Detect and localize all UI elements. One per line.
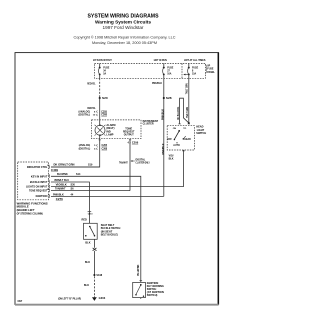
fuse panel divider	[181, 64, 183, 79]
module row 1 INDICATOR CTRL	[27, 165, 50, 169]
module row 6 IGNITION	[36, 194, 51, 198]
label buckle switch text	[101, 224, 121, 236]
page frame	[15, 53, 219, 305]
key switch contacts	[135, 284, 144, 299]
svg-text:8: 8	[94, 111, 96, 113]
svg-text:(DIGITAL): (DIGITAL)	[79, 147, 91, 150]
svg-text:OUTPUT: OUTPUT	[124, 134, 134, 137]
svg-text:5: 5	[94, 145, 96, 147]
svg-text:PANEL: PANEL	[207, 71, 215, 74]
splice S348	[93, 273, 102, 277]
svg-text:DK BLU/ORG: DK BLU/ORG	[177, 107, 180, 120]
svg-text:BLK: BLK	[85, 242, 90, 245]
svg-text:BLU/PNK: BLU/PNK	[137, 264, 140, 275]
module row 2 KEY IN INPUT	[31, 174, 50, 178]
wire row2 BLU/PNK	[51, 176, 141, 282]
svg-text:C310: C310	[88, 213, 93, 215]
svg-text:SWITCH): SWITCH)	[147, 294, 158, 297]
svg-text:S14: S14	[76, 173, 81, 176]
switch position labels	[167, 138, 191, 147]
indicator lamp	[95, 120, 106, 136]
wire below buckle switch	[94, 239, 96, 248]
svg-text:FUSE: FUSE	[167, 68, 174, 70]
svg-text:Warning System Circuits: Warning System Circuits	[95, 20, 152, 25]
junction at switch feed	[188, 122, 190, 124]
svg-text:OFF: OFF	[167, 139, 172, 141]
connector C205 pin 5 (analog) below cluster	[79, 144, 108, 147]
warning functions module dashed box	[18, 162, 49, 200]
buckle switch contacts	[85, 226, 95, 237]
svg-text:LIGHTS ON INPUT: LIGHTS ON INPUT	[26, 185, 48, 189]
svg-text:15A: 15A	[192, 73, 197, 76]
svg-text:HOT IN RUN OR START: HOT IN RUN OR START	[93, 59, 112, 62]
svg-text:HOT IN RUN: HOT IN RUN	[154, 59, 167, 62]
fuse F34	[99, 64, 110, 79]
wire lamp out to module row1	[51, 135, 100, 167]
label key warning switch text	[147, 282, 164, 297]
wire TN/LT GRN from F8	[188, 78, 190, 124]
pin tick cluster bottom tone	[129, 139, 131, 141]
wire RED/YEL dashed from F34	[99, 78, 101, 97]
label C409	[51, 169, 59, 172]
svg-text:BUCKLE INPUT: BUCKLE INPUT	[30, 180, 48, 184]
pin ticks into switch	[178, 123, 190, 125]
inline connector symbol	[93, 248, 97, 251]
svg-text:10A: 10A	[167, 73, 172, 76]
svg-text:AUTO: AUTO	[173, 144, 180, 147]
svg-text:HEAD: HEAD	[184, 138, 191, 141]
svg-text:S30: S30	[71, 184, 76, 187]
connector tick on buckle wire	[88, 212, 94, 216]
svg-text:DK GRN/LT GRN: DK GRN/LT GRN	[54, 164, 75, 167]
splice S20	[99, 96, 109, 100]
svg-text:PNK/BLK: PNK/BLK	[152, 82, 162, 85]
svg-text:PNK/BLK: PNK/BLK	[161, 109, 164, 120]
svg-text:I/P: I/P	[207, 65, 210, 67]
fuse panel dashed box	[94, 64, 205, 79]
svg-text:27: 27	[167, 71, 170, 73]
ground G303	[92, 296, 106, 301]
label HEADLIGHT SWITCH	[196, 126, 206, 136]
svg-text:4: 4	[127, 142, 129, 145]
svg-text:Copyright © 1998 Mitchell Repa: Copyright © 1998 Mitchell Repair Informa…	[74, 36, 177, 40]
wire row4 VIO/BLK	[51, 186, 184, 188]
wire row5 TAN/WHT	[51, 190, 130, 192]
svg-text:S28: S28	[166, 96, 172, 100]
label TONE REQUEST OUTPUT	[123, 127, 135, 136]
svg-text:BLU/PNK: BLU/PNK	[57, 173, 68, 176]
headlight switch dashed box	[167, 126, 194, 150]
label lamp text	[106, 124, 115, 136]
svg-text:CLUSTER ONLY: CLUSTER ONLY	[136, 162, 151, 165]
svg-text:4: 4	[94, 147, 96, 150]
svg-text:Monday, December 18, 2000 05:: Monday, December 18, 2000 05:43PM	[92, 41, 157, 45]
svg-text:6/97: 6/97	[18, 300, 23, 303]
arrow continuation at fuse F8	[183, 74, 189, 76]
svg-text:FUSE: FUSE	[192, 68, 199, 70]
svg-text:CLUSTER: CLUSTER	[143, 123, 154, 126]
splice S28	[163, 96, 173, 100]
svg-text:BLK: BLK	[85, 261, 90, 264]
svg-text:TAN/WHT: TAN/WHT	[119, 162, 128, 165]
svg-text:HOT AT ALL TIMES: HOT AT ALL TIMES	[184, 59, 206, 62]
wire TAN/WHT tone request	[129, 139, 131, 191]
switch terminal labels	[173, 128, 187, 130]
svg-text:OF STEERING COLUMN): OF STEERING COLUMN)	[17, 211, 43, 215]
wire dashed to ground	[93, 276, 95, 296]
wire row1 DK GRN/LT GRN	[51, 166, 100, 168]
svg-text:BLK: BLK	[169, 157, 174, 160]
label C276	[56, 198, 64, 201]
svg-text:FUSE: FUSE	[103, 68, 110, 70]
svg-text:VIO/BLK: VIO/BLK	[56, 184, 67, 187]
label FUSE PANEL	[205, 64, 215, 74]
svg-text:SWITCH: SWITCH	[196, 132, 206, 135]
label INSTRUMENT CLUSTER	[143, 120, 159, 126]
module row 4 LIGHTS ON INPUT	[26, 185, 50, 189]
svg-text:(ON LEFT "B" PILLAR): (ON LEFT "B" PILLAR)	[58, 297, 81, 300]
wire to splice	[94, 251, 96, 274]
module caption	[17, 201, 48, 215]
wire jumper DK BLU/ORG	[180, 98, 189, 124]
connector C268 pin 10 (digital)	[79, 114, 108, 117]
svg-text:LAMP: LAMP	[106, 133, 113, 136]
arrow digital cluster only	[131, 159, 151, 165]
svg-text:G303: G303	[99, 296, 106, 300]
svg-text:BRN/LT BLU: BRN/LT BLU	[55, 179, 70, 182]
switch contacts and levers	[174, 130, 186, 143]
pin tick key switch	[140, 280, 143, 282]
svg-text:RED: RED	[82, 219, 87, 222]
svg-text:TONE REQUEST: TONE REQUEST	[29, 189, 48, 193]
svg-text:S348: S348	[96, 273, 102, 277]
fuse F27	[163, 64, 174, 79]
svg-text:BLK: BLK	[84, 284, 89, 287]
module row 3 BUCKLE INPUT	[30, 180, 50, 184]
connector C205 pin 8 (analog)	[79, 110, 108, 113]
wire VIO/BLK from switch	[183, 150, 185, 187]
svg-text:TO: TO	[183, 128, 186, 130]
svg-text:34: 34	[103, 70, 106, 73]
ignition key warning switch box	[133, 282, 146, 297]
connector C268 pin 4 (digital) below cluster	[79, 147, 108, 150]
svg-text:S19: S19	[88, 164, 93, 167]
module row 5 TONE REQUEST	[29, 189, 50, 193]
instrument cluster dashed box	[92, 120, 141, 139]
svg-text:RED/YEL: RED/YEL	[87, 83, 96, 86]
svg-text:TAN/WHT: TAN/WHT	[55, 188, 66, 191]
wire row3 BRN/LT BLU	[51, 182, 89, 223]
wire row6 PNK/BLK	[51, 195, 164, 197]
label VIO/BLK stacked	[169, 154, 174, 160]
svg-text:10: 10	[93, 115, 96, 117]
switch output pin	[182, 150, 184, 152]
svg-text:5A: 5A	[103, 73, 106, 76]
svg-text:PNK/BLK: PNK/BLK	[53, 194, 64, 197]
seat belt buckle switch box	[84, 223, 98, 239]
pin tick cluster bottom left	[99, 139, 101, 141]
wire PNK/BLK from F27	[163, 78, 165, 196]
svg-text:(DIGITAL): (DIGITAL)	[79, 114, 91, 117]
svg-text:TN/LT GRN: TN/LT GRN	[186, 107, 189, 118]
svg-text:ON: ON	[173, 128, 177, 130]
svg-text:KEY IN INPUT: KEY IN INPUT	[31, 174, 48, 178]
svg-text:TN/LT GRN: TN/LT GRN	[186, 83, 189, 94]
svg-text:IGNITION: IGNITION	[36, 194, 48, 198]
svg-text:FUSE: FUSE	[207, 69, 214, 71]
svg-text:1997 Ford Windstar: 1997 Ford Windstar	[103, 25, 145, 30]
connector C206 pin 4 tone output	[127, 142, 138, 145]
svg-text:PNK/BLK: PNK/BLK	[162, 143, 165, 154]
svg-text:BELT BUCKLE): BELT BUCKLE)	[101, 233, 118, 236]
svg-text:S20: S20	[102, 96, 108, 100]
wire RED/YEL solid to cluster	[99, 98, 101, 120]
svg-text:INDICATOR CTRL: INDICATOR CTRL	[27, 165, 48, 169]
fuse F8	[188, 64, 199, 79]
svg-text:8: 8	[192, 71, 194, 73]
